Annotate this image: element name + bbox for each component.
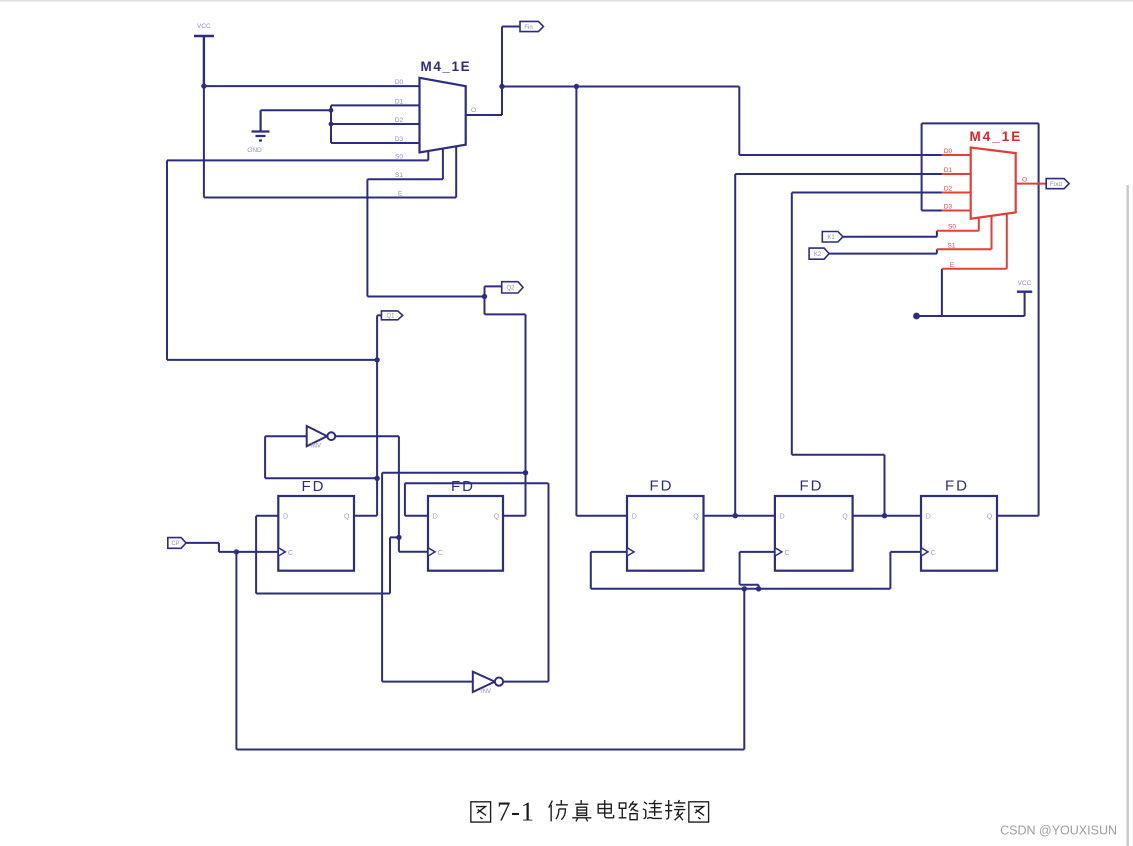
FD5 clock wedge <box>921 548 928 556</box>
wire FD5 Q to D3 of U2 <box>922 123 1039 515</box>
svg-text:D: D <box>632 514 637 521</box>
svg-text:D: D <box>283 514 288 521</box>
svg-text:Q: Q <box>842 514 848 521</box>
glyph 图 (2) <box>689 802 709 822</box>
svg-text:O: O <box>471 107 476 114</box>
power VCC1 symbol <box>194 36 214 86</box>
inverter INV2 <box>473 672 503 695</box>
junction Fin/FD3 D <box>574 84 579 89</box>
power VCC2 symbol <box>1017 291 1032 293</box>
wire CP tag to FD1 C <box>186 543 278 552</box>
svg-text:S1: S1 <box>395 172 403 179</box>
junction GND/D2 <box>329 122 334 127</box>
glyph 连 <box>643 800 662 818</box>
wire node Q2 branch to tag and FD2 Q <box>485 286 526 472</box>
tag K2 <box>809 248 829 259</box>
wire net VCC1 to D0 and E of U1 <box>204 86 456 197</box>
ground GND symbol <box>252 110 270 140</box>
svg-text:Q1: Q1 <box>386 314 395 320</box>
pin stub O of U2 to Fout <box>1016 183 1046 185</box>
tag K1 <box>822 232 843 243</box>
svg-text:Q: Q <box>693 514 699 521</box>
junction S0 loop on Q1 net <box>374 357 379 362</box>
svg-text:VCC: VCC <box>1018 280 1032 287</box>
svg-text:K2: K2 <box>814 252 822 258</box>
tag Fout <box>1046 179 1069 189</box>
glyph 仿 <box>549 800 568 821</box>
svg-text:CSDN @YOUXISUN: CSDN @YOUXISUN <box>1000 824 1117 838</box>
mux U1 M4_1E body <box>420 78 466 153</box>
svg-text:S0: S0 <box>948 224 956 231</box>
tag CP <box>168 538 186 549</box>
svg-text:FD: FD <box>945 478 969 495</box>
pin stub E of U2 <box>942 214 1007 269</box>
svg-text:O: O <box>1022 177 1027 184</box>
wire FD2 Q to INV2 input <box>382 473 525 682</box>
svg-text:INV: INV <box>481 689 491 695</box>
flip-flop FD4 box <box>775 496 853 571</box>
svg-text:Fin: Fin <box>524 25 532 31</box>
svg-text:K1: K1 <box>827 235 835 241</box>
junction clock rail a <box>742 586 747 591</box>
svg-text:M4_1E: M4_1E <box>970 129 1023 144</box>
wire net E of U2 to VCC2 <box>917 269 1025 316</box>
FD2 clock wedge <box>428 548 435 556</box>
svg-text:Q: Q <box>987 514 993 521</box>
junction FD3 Q node <box>733 513 738 518</box>
svg-text:D3: D3 <box>944 204 953 211</box>
glyph 电 <box>598 800 613 818</box>
svg-text:C: C <box>785 550 790 557</box>
wire FD3 Q to FD4 D and D1 of U2 <box>704 174 942 516</box>
junction VCC2/E node <box>913 313 920 320</box>
svg-text:D: D <box>433 514 438 521</box>
svg-text:E: E <box>950 262 955 269</box>
mux U2 M4_1E body (selected red) <box>971 148 1016 219</box>
wire GND to D1 D2 D3 of U1 <box>261 105 420 143</box>
svg-text:D3: D3 <box>395 136 404 143</box>
glyph 接 <box>665 800 685 820</box>
FD4 clock wedge <box>775 548 782 556</box>
svg-text:S0: S0 <box>395 153 403 160</box>
wire net Q1 to S0 of U1 <box>167 151 428 360</box>
tag Q2 <box>502 282 523 293</box>
wire FD4 C jog to clock rail <box>740 552 775 589</box>
svg-text:E: E <box>398 191 403 198</box>
svg-text:C: C <box>931 550 936 557</box>
junction Q2/INV2 path <box>523 470 528 475</box>
pin stub S0 of U2 <box>937 218 979 231</box>
wire net Fin to FD3 D <box>502 87 739 516</box>
svg-text:GND: GND <box>247 147 262 154</box>
scrollbar fragment right edge <box>1127 185 1129 846</box>
svg-text:7-1: 7-1 <box>497 797 535 827</box>
svg-text:Q2: Q2 <box>506 286 515 292</box>
svg-text:M4_1E: M4_1E <box>421 59 472 74</box>
wire net Fin to D0 of U2 <box>739 87 942 156</box>
glyph 路 <box>619 801 639 819</box>
junction CP/bottom loop <box>234 549 239 554</box>
tag Q1 <box>381 311 402 320</box>
svg-text:FD: FD <box>650 478 674 495</box>
svg-text:D1: D1 <box>395 98 404 105</box>
svg-text:C: C <box>438 550 443 557</box>
svg-text:C: C <box>288 550 293 557</box>
junction GND/D1 <box>329 108 334 113</box>
tag Fin <box>520 21 543 31</box>
junction O1/Fin <box>499 84 504 89</box>
pin stub S1 of U2 <box>937 216 992 250</box>
junction FD4 Q node <box>882 513 887 518</box>
svg-text:FD: FD <box>800 478 824 495</box>
wire U1 output O to Fin tag <box>466 27 520 116</box>
FD pin letters <box>283 514 993 558</box>
wire FD4 Q to FD5 D and D2 of U2 <box>792 193 942 516</box>
svg-text:D1: D1 <box>944 167 953 174</box>
pin labels U1 <box>395 79 476 198</box>
svg-text:D2: D2 <box>395 117 404 124</box>
wire INV2 output to FD2 D <box>405 483 549 681</box>
wire K2 tag to S1 of U2 <box>829 249 937 253</box>
svg-text:INV: INV <box>311 444 321 450</box>
flip-flop FD5 box <box>921 496 997 571</box>
pin labels U2 (red) <box>944 148 1027 269</box>
flip-flop FD2 box <box>428 496 503 571</box>
glyph 图 (1) <box>471 802 491 822</box>
flip-flop FD1 box <box>278 496 354 571</box>
wire net Q1 to INV1 input <box>265 436 377 478</box>
svg-text:Q: Q <box>344 514 350 521</box>
junction INV1 out node <box>396 535 401 540</box>
svg-text:Fout: Fout <box>1050 182 1062 188</box>
junction Q2 branch <box>482 294 487 299</box>
svg-text:D0: D0 <box>944 148 953 155</box>
svg-text:CP: CP <box>171 541 179 547</box>
wire INV1 output to FD2 C and FD1 D <box>256 436 428 593</box>
glyph 真 <box>572 800 591 821</box>
top gray edge line <box>0 0 1133 2</box>
caption: 图 7-1 仿真电路连接图 (drawn glyphs) <box>471 800 709 822</box>
svg-text:FD: FD <box>451 478 475 495</box>
svg-text:VCC: VCC <box>197 23 211 30</box>
inverter INV1 <box>307 426 335 450</box>
junction clock rail b <box>756 586 761 591</box>
wire K1 tag to S0 of U2 <box>843 231 937 237</box>
junction VCC1/D0 <box>201 83 206 88</box>
pin stubs D0-D3 of U2 <box>942 155 971 211</box>
svg-text:S1: S1 <box>948 242 956 249</box>
svg-text:FD: FD <box>302 478 326 495</box>
wire FD1 Q to Q1 tag <box>354 315 381 515</box>
svg-text:Q: Q <box>494 514 500 521</box>
wire net CP bottom loop to FD4 C junction <box>236 552 744 750</box>
svg-text:D2: D2 <box>944 186 953 193</box>
svg-text:D0: D0 <box>395 79 404 86</box>
svg-text:D: D <box>926 514 931 521</box>
svg-text:D: D <box>780 514 785 521</box>
wire net Q2 to S1 of U1 <box>367 149 484 297</box>
wire FD3 C to FD5 C <box>591 552 921 589</box>
FD3 clock wedge <box>627 548 634 556</box>
flip-flop FD3 box <box>627 496 704 571</box>
FD1 clock wedge <box>278 548 285 556</box>
junction INV1 loop on Q1 net <box>374 476 379 481</box>
